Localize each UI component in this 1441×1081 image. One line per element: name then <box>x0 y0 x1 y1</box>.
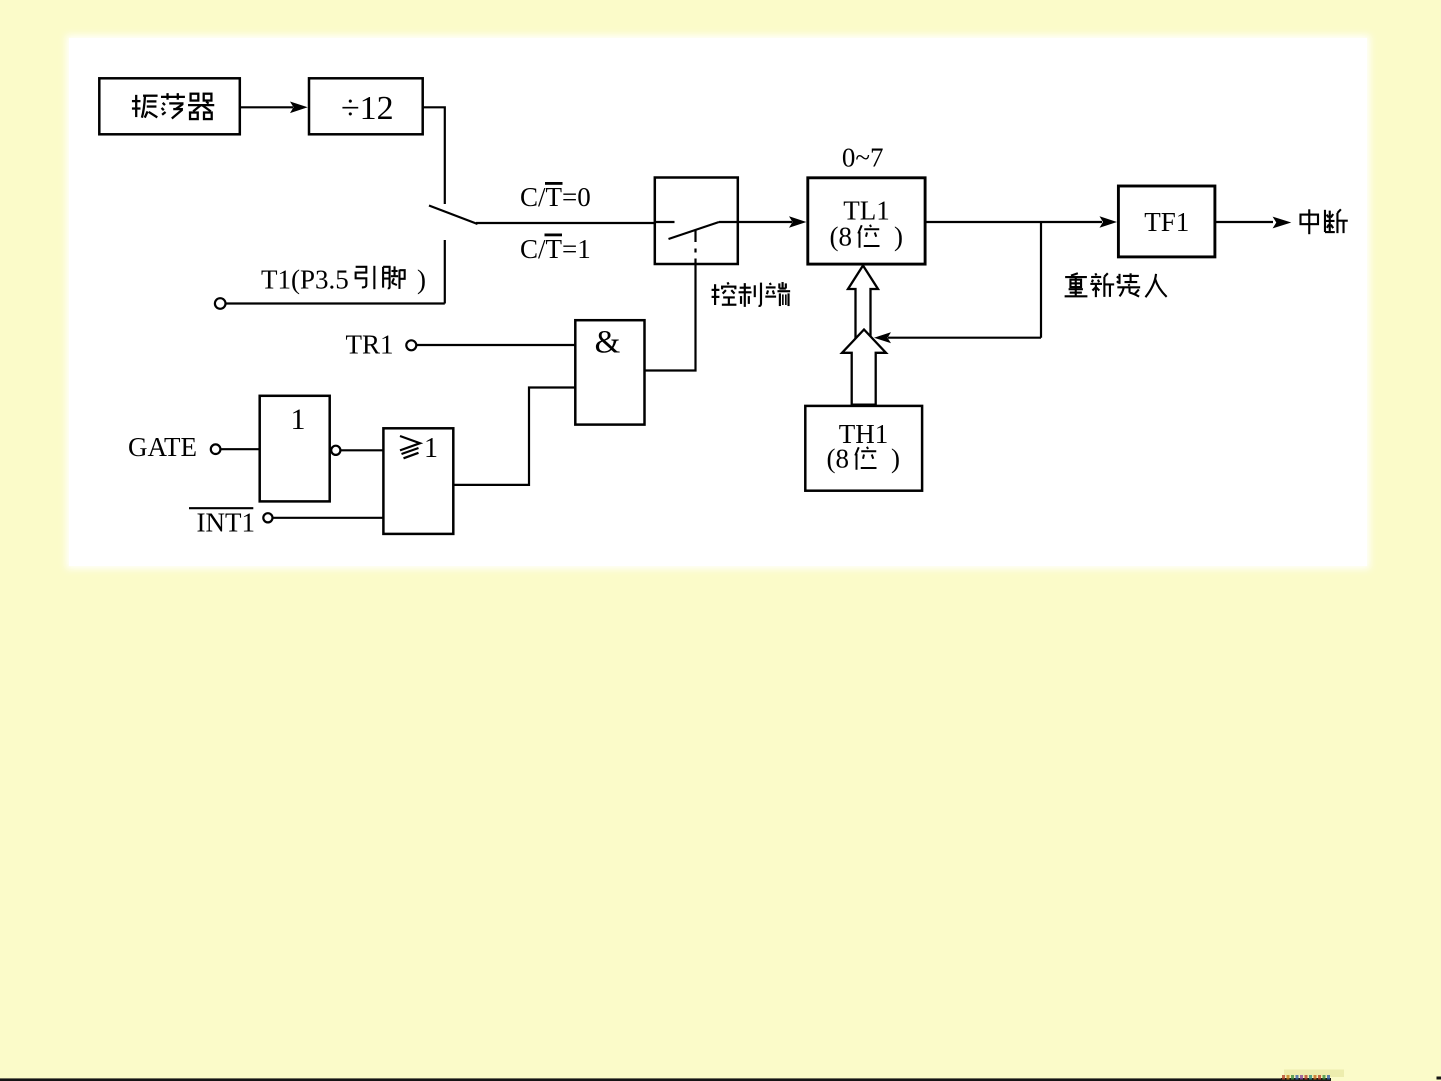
svg-text:0~7: 0~7 <box>842 143 884 173</box>
svg-text:(8: (8 <box>827 444 850 474</box>
svg-text:C/T=1: C/T=1 <box>520 234 591 264</box>
svg-text:C/T=0: C/T=0 <box>520 182 591 212</box>
svg-text:T1(P3.5: T1(P3.5 <box>261 265 349 295</box>
svg-text:GATE: GATE <box>128 432 197 462</box>
svg-text:1: 1 <box>291 403 306 436</box>
svg-text:TF1: TF1 <box>1144 207 1189 237</box>
svg-text:TR1: TR1 <box>346 330 394 360</box>
svg-text:): ) <box>417 265 426 295</box>
svg-text:1: 1 <box>424 433 438 464</box>
svg-text:): ) <box>894 222 903 252</box>
svg-text:(8: (8 <box>830 222 853 252</box>
svg-text:÷12: ÷12 <box>341 90 394 127</box>
svg-text:&: & <box>595 325 621 361</box>
svg-text:): ) <box>891 444 900 474</box>
svg-text:INT1: INT1 <box>197 508 255 538</box>
